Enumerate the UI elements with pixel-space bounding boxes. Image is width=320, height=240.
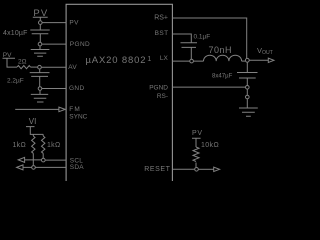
wire LX pin <box>172 60 203 62</box>
svg-text:FM: FM <box>69 106 81 113</box>
svg-text:LX: LX <box>160 55 169 62</box>
capacitor C2 2.2uF <box>30 73 50 77</box>
svg-text:4x10µF: 4x10µF <box>3 30 28 37</box>
wire node to ground <box>39 46 41 49</box>
svg-text:1kΩ: 1kΩ <box>47 142 61 149</box>
wire R3 to SCL node <box>42 153 44 158</box>
node RESET arrowhead <box>214 167 220 171</box>
node junction input rail <box>38 21 42 25</box>
svg-text:PV: PV <box>33 8 48 19</box>
svg-text:70nH: 70nH <box>209 45 232 55</box>
svg-text:0.1µF: 0.1µF <box>194 34 211 41</box>
node junction C1/PGND <box>38 42 42 46</box>
node PVIN rail bar top-left <box>33 17 48 20</box>
capacitor C3 0.1uF bootstrap <box>180 43 197 48</box>
wire PVIN pin <box>42 22 66 24</box>
wire L1 to VOUT node <box>242 60 246 62</box>
node FM arrowhead <box>59 107 65 112</box>
node PV rail 2 bar <box>2 58 14 61</box>
node SCL arrowhead <box>18 157 24 162</box>
capacitor C4 8x47uF output <box>237 72 257 78</box>
wire AVIN pin <box>42 66 66 68</box>
resistor R1 2ohm <box>17 65 31 68</box>
svg-text:SYNC: SYNC <box>69 114 87 121</box>
wire junction link <box>246 89 248 95</box>
wire VIO to resistors <box>30 129 43 136</box>
ground G3 output <box>239 108 258 116</box>
svg-text:GND: GND <box>69 85 85 92</box>
node junction BST/LX <box>190 59 194 63</box>
resistor R3 1kohm right <box>41 134 44 153</box>
svg-text:2.2µF: 2.2µF <box>7 78 24 85</box>
svg-text:VOUT: VOUT <box>257 46 274 56</box>
node junction SDA <box>32 166 36 170</box>
wire C2 to GND node <box>39 76 41 86</box>
wire SCL line <box>25 159 66 161</box>
wire C3 to LX <box>190 47 192 59</box>
svg-text:RS+: RS+ <box>154 14 168 21</box>
node VIO rail bar <box>26 127 34 129</box>
svg-text:PV: PV <box>192 130 203 137</box>
node junction C2/GND <box>38 87 42 91</box>
wire GND pin <box>42 87 66 89</box>
node SDA arrowhead <box>17 165 23 170</box>
svg-text:RESET: RESET <box>144 166 170 173</box>
IC U1 regulator body <box>66 4 172 182</box>
ground G1 <box>31 49 50 56</box>
wire R2 to SDA node <box>32 153 34 165</box>
wire node to C2 <box>39 69 41 72</box>
wire RESET pin <box>172 168 194 170</box>
node junction RESET <box>195 167 199 171</box>
node junction AV <box>38 65 42 69</box>
wire rail to R1 <box>7 61 17 67</box>
svg-text:µAX20 88021: µAX20 88021 <box>85 55 152 66</box>
wire VOUT arrow line <box>249 59 268 61</box>
node junction RS- <box>245 95 249 99</box>
svg-text:PV: PV <box>3 52 12 59</box>
node PV pull-up rail bar <box>192 138 201 140</box>
node junction VOUT <box>245 58 249 62</box>
node junction SCL <box>41 158 45 162</box>
node junction C4/PGND <box>245 85 249 89</box>
svg-text:BST: BST <box>155 30 169 37</box>
wire RS+ sense to VOUT <box>172 18 246 58</box>
wire PGND right pin <box>172 86 245 88</box>
wire PGND pin <box>42 43 66 45</box>
wire SDA line <box>23 166 66 168</box>
ground G2 <box>31 94 48 102</box>
wire R4 to RESET node <box>195 162 197 167</box>
wire rail to R4 <box>195 140 197 147</box>
svg-text:2Ω: 2Ω <box>18 59 27 66</box>
wire BST pin <box>172 34 191 43</box>
resistor R4 10kohm <box>193 147 199 161</box>
wire rail to C1 <box>39 25 41 30</box>
svg-text:RS-: RS- <box>157 93 168 100</box>
wire R1 to AV node <box>30 66 37 68</box>
wire C4 to PGND node <box>246 78 248 85</box>
svg-text:10kΩ: 10kΩ <box>201 142 219 149</box>
svg-text:PGND: PGND <box>70 41 90 48</box>
wire node to ground <box>246 99 248 108</box>
wire C1 to PGND node <box>39 34 41 42</box>
svg-text:1kΩ: 1kΩ <box>13 142 27 149</box>
svg-text:PV: PV <box>69 19 79 26</box>
wire RESET arrow line <box>198 168 214 170</box>
wire node to ground <box>39 91 41 95</box>
svg-text:PGND: PGND <box>149 84 168 91</box>
capacitor C1 4x10uF <box>30 30 49 34</box>
resistor R2 1kohm left <box>32 136 35 153</box>
wire VOUT node to C4 <box>246 62 248 72</box>
svg-text:VI: VI <box>29 117 37 126</box>
node VOUT arrowhead <box>268 58 274 62</box>
svg-text:8x47µF: 8x47µF <box>212 72 233 79</box>
wire FM/SYNC input <box>15 108 59 110</box>
svg-text:AV: AV <box>68 64 77 71</box>
inductor L1 70nH <box>203 55 241 61</box>
svg-text:SDA: SDA <box>70 164 84 171</box>
